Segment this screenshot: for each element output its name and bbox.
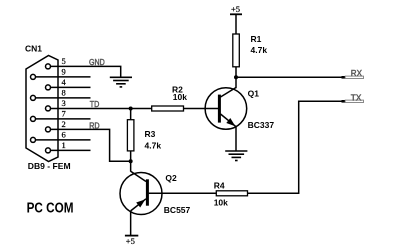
CN1 pin 8 circle <box>31 95 36 100</box>
svg-text:2: 2 <box>62 119 66 129</box>
transistor Q2 circle <box>120 173 162 215</box>
CN1 pin 4 circle <box>46 85 51 90</box>
connector CN1 outline <box>26 56 58 162</box>
svg-text:3: 3 <box>62 98 66 108</box>
wire R4 to TX <box>248 101 342 193</box>
wire R3 top <box>130 108 132 119</box>
Q1 emitter diagonal <box>221 114 237 127</box>
svg-text:7: 7 <box>62 109 66 119</box>
wire pin6 stub <box>36 139 91 141</box>
CN1 pin 3 circle <box>46 106 51 111</box>
node TD/R3 junction <box>129 106 133 110</box>
CN1 pin 9 circle <box>31 74 36 79</box>
svg-text:4: 4 <box>62 77 67 87</box>
wire pin9 stub <box>36 76 91 78</box>
Q1 collector diagonal <box>221 88 237 98</box>
Q2 base bar <box>146 179 149 205</box>
power +5 top symbol <box>230 13 242 15</box>
svg-text:10k: 10k <box>173 92 187 102</box>
Q1 base bar <box>218 95 221 123</box>
power +5 bottom symbol <box>125 235 138 237</box>
svg-text:RX: RX <box>351 68 363 78</box>
svg-text:BC337: BC337 <box>248 120 275 130</box>
svg-text:R1: R1 <box>251 34 262 44</box>
svg-text:4.7k: 4.7k <box>251 45 268 55</box>
port RX <box>342 68 364 79</box>
svg-text:GND: GND <box>89 58 105 67</box>
svg-text:CN1: CN1 <box>25 43 42 53</box>
wire Q2 base to R4 <box>149 192 217 194</box>
wire Q1 emitter to ground <box>235 127 237 151</box>
Q2 emitter arrow <box>136 199 145 207</box>
wire pin5 to GND <box>51 66 121 77</box>
resistor R3 <box>127 120 133 151</box>
wire pin1 stub <box>51 149 91 151</box>
wire R1 bottom to Q1 collector <box>235 67 237 88</box>
wire RX line <box>236 76 342 78</box>
CN1 pin 2 circle <box>46 127 51 132</box>
svg-text:PC COM: PC COM <box>27 200 74 216</box>
svg-text:6: 6 <box>62 130 66 140</box>
svg-text:R3: R3 <box>145 129 156 139</box>
svg-text:9: 9 <box>62 67 66 77</box>
svg-text:Q1: Q1 <box>248 88 260 98</box>
wire pin7 stub <box>36 118 91 120</box>
wire Q2 collector to node <box>130 161 132 171</box>
Q2 collector diagonal <box>131 171 146 181</box>
svg-text:DB9 - FEM: DB9 - FEM <box>28 161 71 171</box>
svg-text:4.7k: 4.7k <box>145 141 162 151</box>
wire pin8 stub <box>36 97 91 99</box>
node R3/RD/Q2 junction <box>129 159 133 163</box>
svg-text:Q2: Q2 <box>165 173 177 183</box>
port TX <box>342 93 364 103</box>
svg-text:8: 8 <box>62 88 66 98</box>
CN1 pin 7 circle <box>31 116 36 121</box>
node R1/RX/Q1 junction <box>234 75 238 79</box>
resistor R1 <box>233 34 240 67</box>
Q2 emitter diagonal <box>131 199 146 211</box>
svg-text:TX: TX <box>351 93 362 103</box>
CN1 pin 1 circle <box>46 148 51 153</box>
Q1 emitter arrow <box>226 118 235 126</box>
svg-text:BC557: BC557 <box>164 205 191 215</box>
svg-text:TD: TD <box>90 100 100 109</box>
resistor R2 <box>152 106 184 111</box>
wire pin3 TD to R2 <box>51 107 152 109</box>
ground symbol at pin5 <box>110 77 132 87</box>
ground symbol at Q1 <box>225 151 247 161</box>
transistor Q1 circle <box>205 88 247 130</box>
wire Q2 emitter to +5 <box>130 211 132 236</box>
CN1 pin 5 circle <box>46 64 51 69</box>
svg-text:R4: R4 <box>214 180 225 190</box>
svg-text:+5: +5 <box>126 236 135 246</box>
wire R3 bottom to node <box>130 151 132 161</box>
resistor R4 <box>216 191 247 196</box>
wire R2 to Q1 base <box>184 107 219 109</box>
wire +5 to R1 <box>235 14 237 34</box>
CN1 pin 6 circle <box>31 137 36 142</box>
svg-text:10k: 10k <box>214 197 228 207</box>
svg-text:+5: +5 <box>231 4 240 14</box>
wire pin2 RD to node <box>51 129 131 161</box>
svg-text:1: 1 <box>62 140 66 150</box>
wire pin4 stub <box>51 86 91 88</box>
svg-text:RD: RD <box>89 122 100 131</box>
svg-text:5: 5 <box>62 56 66 66</box>
